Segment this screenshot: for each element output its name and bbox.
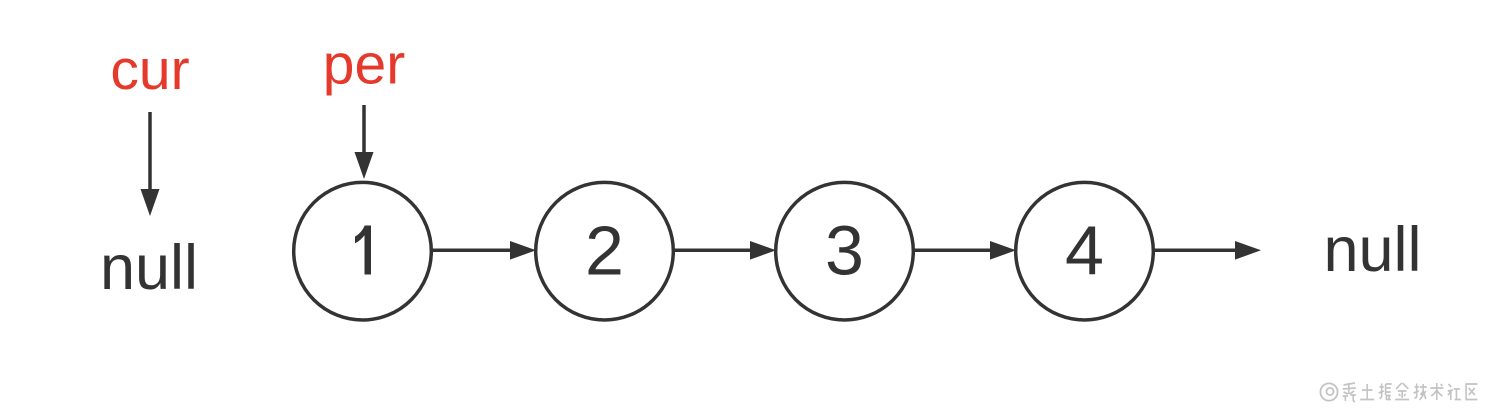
svg-text:4: 4 — [1065, 212, 1104, 290]
node 2 circle — [536, 182, 674, 320]
arrow from cur down to null — [141, 112, 160, 216]
char tu — [1360, 384, 1374, 400]
svg-text:null: null — [1323, 215, 1421, 285]
svg-text:2: 2 — [585, 212, 624, 290]
watermark @juejin community — [1320, 383, 1477, 402]
node 4 circle — [1016, 182, 1154, 320]
char she — [1448, 384, 1461, 400]
char ji — [1414, 384, 1427, 401]
wire arrow node2 -> node3 — [673, 241, 777, 260]
wire arrow node3 -> node4 — [913, 241, 1017, 260]
node 1 circle — [294, 182, 432, 320]
char jue — [1379, 384, 1392, 401]
wire arrow node1 -> node2 — [431, 241, 537, 260]
node 3 circle — [776, 182, 914, 320]
svg-text:null: null — [100, 233, 198, 303]
svg-text:per: per — [323, 33, 405, 97]
arrow from per down to node 1 — [355, 105, 374, 179]
node 1 value — [355, 226, 371, 275]
svg-text:3: 3 — [825, 212, 864, 290]
@ sign — [1320, 383, 1337, 400]
char shu — [1430, 383, 1443, 400]
char jin — [1395, 383, 1409, 400]
char qu — [1466, 384, 1477, 400]
char xi — [1343, 383, 1356, 402]
wire arrow node4 -> null — [1154, 241, 1261, 260]
svg-text:cur: cur — [110, 38, 189, 102]
